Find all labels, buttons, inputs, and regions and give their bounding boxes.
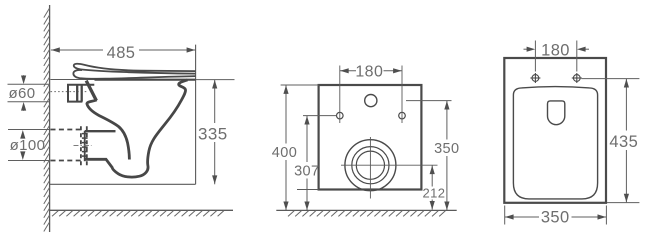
dimension ø60 <box>8 75 50 111</box>
fixing hole right <box>399 112 406 119</box>
seat hinge diagonal <box>86 81 96 101</box>
outlet dashed leader bottom <box>51 160 82 162</box>
fixing cross right <box>572 73 582 83</box>
dimension 350 (top view) <box>505 206 607 225</box>
bowl back edge / trap curve <box>87 100 129 160</box>
pan outer rectangle <box>504 58 606 203</box>
water inlet circle <box>365 95 377 107</box>
dimension 350 (center) <box>406 100 452 102</box>
svg-text:ø100: ø100 <box>10 137 46 154</box>
toilet lid <box>74 64 196 74</box>
hole extension verticals <box>340 66 402 124</box>
inlet pipe centerline (dotted) <box>51 91 88 93</box>
wall hatching <box>44 8 50 232</box>
dimension 180 (top view) <box>524 41 590 72</box>
svg-text:212: 212 <box>422 185 445 200</box>
bowl rim line <box>95 79 196 81</box>
dimension ø100 <box>8 130 49 161</box>
ground hatching <box>288 211 445 217</box>
ground line <box>276 209 456 211</box>
wall line <box>49 5 51 232</box>
fixing hole left <box>337 112 344 119</box>
dimension 485 <box>51 49 196 51</box>
fixing cross left <box>530 73 540 83</box>
svg-text:400: 400 <box>272 145 297 161</box>
dimension 400 <box>281 84 319 86</box>
svg-text:ø60: ø60 <box>8 85 35 102</box>
outlet crosshair <box>341 137 438 199</box>
tank/frame rectangle <box>319 85 422 190</box>
svg-text:485: 485 <box>107 44 136 62</box>
svg-text:350: 350 <box>541 209 570 227</box>
dimension 212 <box>431 166 433 210</box>
outlet dashed box verticals <box>81 126 87 166</box>
seat outline <box>513 87 597 199</box>
floor line <box>50 209 233 211</box>
outlet dashed leader top <box>51 129 81 131</box>
frame bottom line <box>50 183 196 185</box>
outlet gasket teeth <box>82 134 88 157</box>
inlet pipe block <box>68 85 94 102</box>
svg-text:335: 335 <box>198 124 228 143</box>
floor hatching <box>52 211 224 217</box>
bottom-left extension line <box>297 189 319 191</box>
svg-text:435: 435 <box>609 133 638 151</box>
bowl outer profile curve <box>85 80 188 177</box>
outlet gasket line <box>84 131 86 161</box>
frame right vertical / extension line <box>195 45 197 185</box>
dimension 307 <box>303 115 337 117</box>
dimension 180 (center) <box>340 70 402 72</box>
outlet centerline (dash-dot) <box>74 145 92 147</box>
svg-text:180: 180 <box>541 42 570 60</box>
flush water outline <box>548 101 565 125</box>
svg-text:350: 350 <box>434 141 459 157</box>
svg-text:180: 180 <box>355 63 383 80</box>
dimension 435 <box>582 79 640 203</box>
toilet seat <box>73 70 195 79</box>
outlet circles <box>345 140 396 191</box>
outlet pipe top line <box>85 130 116 132</box>
svg-text:307: 307 <box>294 163 319 179</box>
frame top line <box>50 79 96 81</box>
dimension 335 <box>196 79 235 81</box>
